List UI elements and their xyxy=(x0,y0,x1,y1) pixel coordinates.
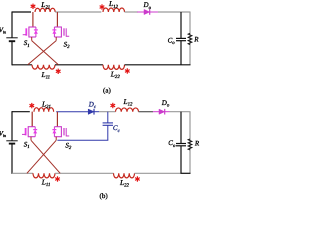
svg-text:L12: L12 xyxy=(123,97,134,108)
wire: (b) left rail upper (Vin+ to top rail) xyxy=(11,111,13,141)
diode Dc (b) xyxy=(88,109,99,115)
wire: (b) bottom rail left segment xyxy=(12,172,33,174)
svg-text:S2: S2 xyxy=(64,40,71,50)
wire: (a) load branch vertical (right edge) xyxy=(189,12,191,65)
svg-text:S2: S2 xyxy=(65,141,72,151)
wire: (a) top rail right segment to output corner xyxy=(158,11,191,13)
wire: (b) clamp branch from S2 drain node to diode Dc xyxy=(56,111,88,113)
svg-text:R: R xyxy=(193,35,199,43)
asterisk: L12 dotted end (a) xyxy=(100,4,105,9)
wire: (b) top rail between L12 and Do xyxy=(139,111,154,113)
asterisk: L11 dotted end (a) xyxy=(56,69,61,74)
voltage source Vin (a) battery xyxy=(6,38,17,41)
diode Do (b) xyxy=(153,109,170,115)
wire: (a) left rail lower (Vin- to bottom rail) xyxy=(11,41,13,65)
wire: clamp return line to S2 source (b) xyxy=(57,139,108,141)
svg-text:Cc: Cc xyxy=(113,124,121,134)
wire: (b) top rail left segment xyxy=(12,111,30,113)
wire: (b) bottom rail middle segment xyxy=(55,172,114,174)
svg-text:L22: L22 xyxy=(110,70,121,81)
svg-text:L11: L11 xyxy=(41,70,51,81)
svg-text:R: R xyxy=(194,140,200,148)
asterisk: L21 dotted end (b) xyxy=(29,103,34,108)
resistor R (a) xyxy=(188,33,192,44)
wire: (a) top rail between L12 and diode Do xyxy=(125,11,139,13)
node A dot marker (asterisk, L21 dotted end) xyxy=(31,4,36,9)
wire: S1 drain connection to top rail xyxy=(32,12,34,27)
inductor L21 (b) xyxy=(34,108,54,112)
svg-text:(a): (a) xyxy=(103,87,111,95)
wire: (b) output capacitor branch lower xyxy=(180,146,182,174)
wire: (b) bottom rail right segment (gray) xyxy=(135,172,181,174)
wire: (b) top rail from Dc to L12 xyxy=(99,111,116,113)
capacitor Co (b) xyxy=(176,144,186,146)
wire: Cc bottom to clamp return corner (b) xyxy=(107,125,109,140)
wire: cross-connection S1 source to bottom rail right of L11 xyxy=(32,41,59,65)
svg-text:Vin: Vin xyxy=(0,27,6,35)
transistor S2 (a) MOSFET xyxy=(52,12,69,41)
inductor L12 (b) xyxy=(116,108,139,112)
wire: (b) bottom rail right corner segment xyxy=(180,172,190,174)
asterisk: L22 dotted end (b) xyxy=(135,176,140,181)
svg-text:L22: L22 xyxy=(119,178,130,189)
wire: (b) top rail right segment to output corner xyxy=(170,111,191,113)
svg-text:Co: Co xyxy=(168,139,176,149)
svg-text:Do: Do xyxy=(161,99,170,109)
svg-text:Vin: Vin xyxy=(0,131,6,139)
wire: (a) output capacitor branch lower xyxy=(180,41,182,65)
wire: (a) bottom rail left segment xyxy=(12,64,32,66)
asterisk: L12 dotted end (b) xyxy=(110,103,115,108)
wire: cross-connection S1 source to bottom rail right of L11 (b) xyxy=(31,140,60,173)
svg-text:Dc: Dc xyxy=(88,101,97,111)
svg-text:Co: Co xyxy=(168,36,176,46)
wire: (b) output capacitor branch upper xyxy=(180,112,182,144)
inductor L21 (a) xyxy=(35,8,55,12)
clamp capacitor branch: wire node X down to Cc (b) xyxy=(107,112,109,123)
wire: (a) bottom rail middle segment xyxy=(55,64,103,66)
inductor L12 (a) xyxy=(103,8,125,12)
wire: cross-connection S2 source to bottom rail left of L11 xyxy=(28,41,57,65)
capacitor Cc (b) xyxy=(103,123,113,125)
diode Do (a) xyxy=(137,9,158,15)
svg-text:S1: S1 xyxy=(24,39,30,49)
asterisk: L11 dotted end (b) xyxy=(55,176,60,181)
inductor L11 (b) xyxy=(33,173,55,178)
wire: S2 drain connection to top rail xyxy=(56,12,58,27)
wire: (b) load branch vertical (right edge) xyxy=(189,112,191,174)
inductor L11 (a) xyxy=(32,65,55,69)
wire: (a) bottom rail right segment xyxy=(125,64,191,66)
wire: (a) top rail left segment xyxy=(12,11,31,13)
wire: (a) left rail upper (Vin+ to top rail) xyxy=(11,11,13,37)
wire: (a) output capacitor branch upper xyxy=(180,12,182,38)
wire: (a) top rail between S2 drain and L12 xyxy=(55,11,101,13)
capacitor Co (a) xyxy=(176,38,186,40)
voltage source Vin (b) battery xyxy=(6,141,17,144)
svg-text:(b): (b) xyxy=(100,192,109,200)
svg-text:L11: L11 xyxy=(41,178,51,189)
transistor S1 (b) MOSFET xyxy=(22,112,37,141)
asterisk: L22 dotted end (a) xyxy=(125,68,130,73)
wire: (b) left rail lower (Vin- to bottom rail) xyxy=(11,144,13,174)
wire: S1 drain connection to top rail (b) xyxy=(31,112,33,127)
wire: S2 drain connection to top rail (b) xyxy=(56,112,58,127)
wire: cross-connection S2 source to bottom rail left of L11 (b) xyxy=(27,140,56,173)
transistor S1 (a) MOSFET xyxy=(23,12,38,41)
resistor R (b) xyxy=(188,139,192,150)
inductor L22 (b) xyxy=(114,173,135,178)
transistor S2 (b) MOSFET xyxy=(52,112,69,141)
svg-text:S1: S1 xyxy=(24,140,30,150)
inductor L22 (a) xyxy=(103,65,125,70)
